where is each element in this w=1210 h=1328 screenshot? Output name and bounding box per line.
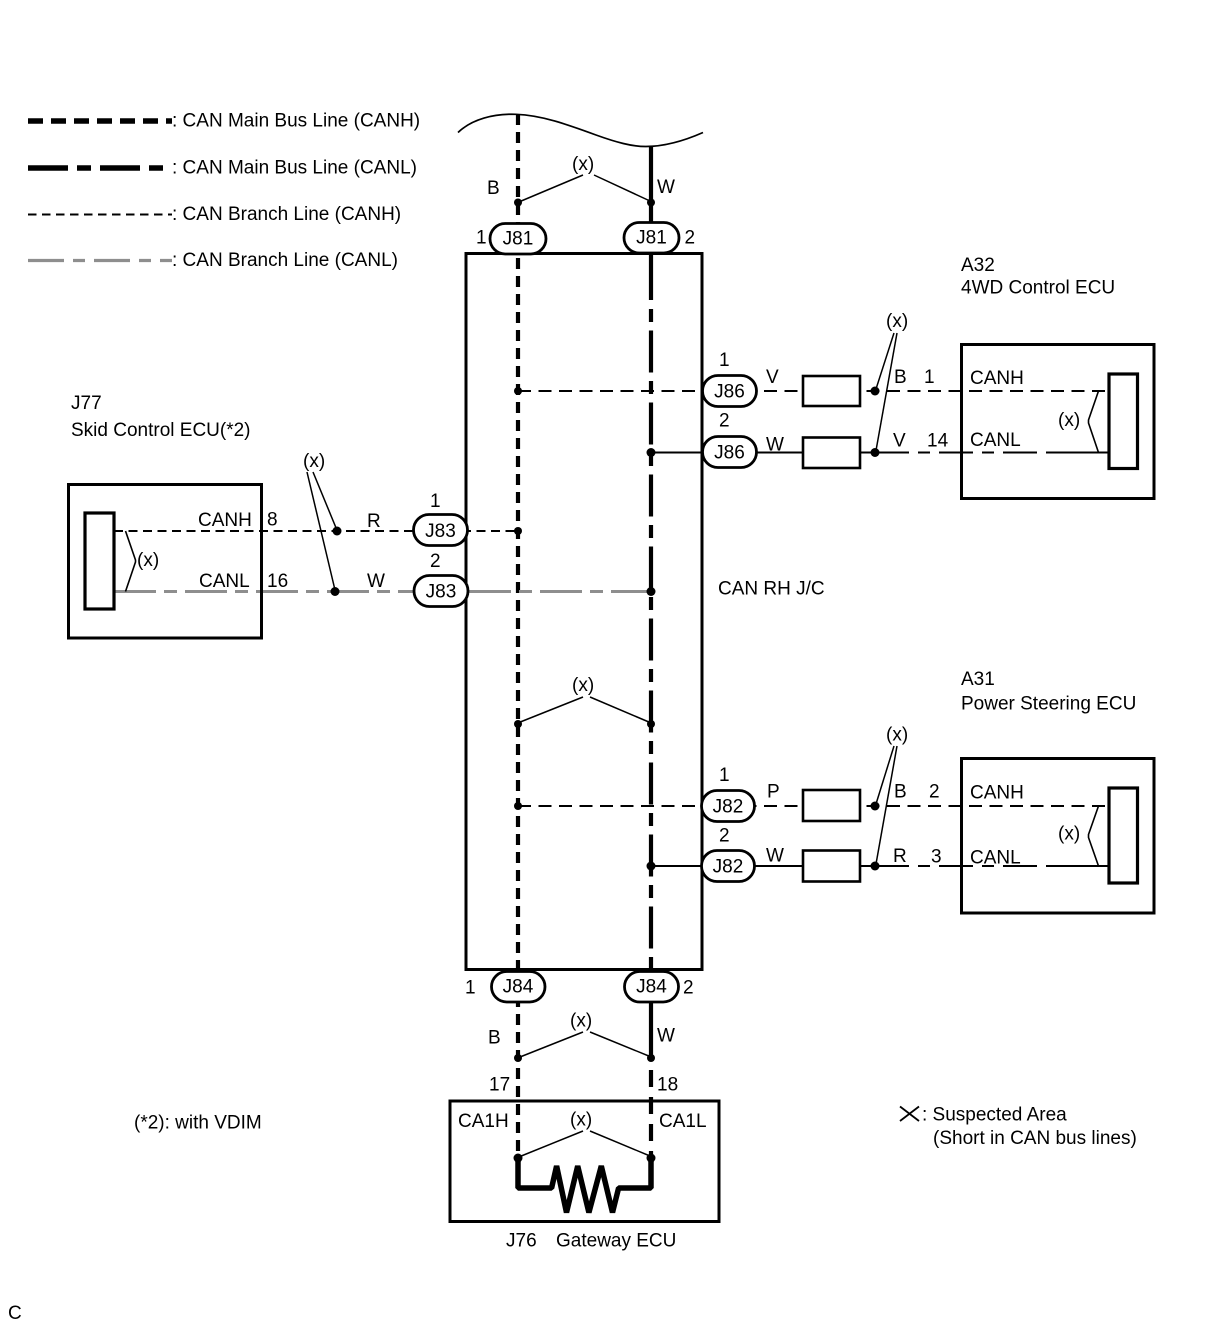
junction dot mid W — [647, 720, 655, 728]
wire: CANL branch line from bus W to 4WD Control ECU via J86 pin 2 (solid part) — [651, 452, 875, 454]
svg-text:17: 17 — [489, 1075, 510, 1096]
svg-text:CANH: CANH — [970, 783, 1024, 804]
connector pin strip inside J77 — [85, 513, 114, 609]
svg-text:V: V — [893, 431, 906, 452]
svg-text:P: P — [767, 782, 780, 803]
wire: CAN main bus CANH (B line, vertical dashed) — [516, 114, 520, 1158]
wire: CAN main bus CANL (W line, top solid segment) — [649, 146, 653, 300]
callout line J86 lower — [876, 333, 897, 451]
svg-text:R: R — [367, 511, 381, 532]
connector oval: J82 pin 1 — [702, 791, 755, 822]
svg-text:CA1L: CA1L — [659, 1111, 707, 1132]
callout line mid right — [590, 697, 650, 723]
callout line gateway right — [590, 1131, 650, 1156]
junction dot mid B — [514, 720, 522, 728]
svg-text:2: 2 — [929, 782, 940, 803]
svg-text:1: 1 — [430, 491, 441, 512]
svg-text:W: W — [657, 1026, 675, 1047]
connector oval: J86 pin 1 — [703, 376, 757, 407]
junction block: CAN RH J/C box — [466, 254, 702, 970]
note: suspected area X symbol — [900, 1107, 919, 1122]
svg-text:Skid Control ECU(*2): Skid Control ECU(*2) — [71, 420, 251, 441]
svg-text:1: 1 — [476, 228, 487, 249]
svg-text:(x): (x) — [1058, 824, 1080, 845]
svg-text:B: B — [488, 1028, 501, 1049]
junction dot where J83 CANH branch meets bus B — [514, 527, 522, 535]
junction dot where J86 CANL branch meets bus W — [647, 448, 656, 457]
svg-text:1: 1 — [924, 367, 935, 388]
svg-text:J77: J77 — [71, 393, 102, 414]
svg-text:J83: J83 — [426, 582, 457, 603]
svg-text:A32: A32 — [961, 255, 995, 276]
junction dot where J86 CANH branch meets bus B — [514, 387, 522, 395]
svg-text:B: B — [894, 367, 907, 388]
svg-text:1: 1 — [465, 978, 476, 999]
junction dot where J82 CANH branch meets bus B — [514, 802, 522, 810]
connector oval: J83 pin 1 — [414, 515, 468, 546]
legend line: CAN Main Bus Line (CANH) sample — [28, 118, 172, 124]
svg-text:(x): (x) — [572, 154, 594, 175]
connector oval: J82 pin 2 — [702, 851, 755, 882]
svg-text:J81: J81 — [503, 229, 534, 250]
legend line: CAN Branch Line (CANL) sample — [28, 259, 172, 262]
junction dot J83 CANL — [331, 587, 340, 596]
wire: CANL branch line J82 pin 2 (dash-dot part into A31) — [875, 865, 1056, 867]
svg-text:: CAN Main Bus Line (CANH): : CAN Main Bus Line (CANH) — [172, 111, 420, 132]
svg-text:(x): (x) — [570, 1011, 592, 1032]
svg-text:4WD Control ECU: 4WD Control ECU — [961, 278, 1115, 299]
callout line top right — [594, 175, 650, 201]
junction dot J86 CANH — [871, 387, 880, 396]
resistor: terminating resistor inside gateway ECU — [518, 1156, 651, 1213]
svg-text:CANL: CANL — [970, 430, 1021, 451]
wire: CANL branch line J86 pin 2 (dash-dot part into A32) — [875, 452, 1056, 454]
svg-text:J86: J86 — [714, 443, 745, 464]
junction dot gateway W — [647, 1154, 656, 1163]
svg-text:(x): (x) — [1058, 410, 1080, 431]
svg-text:18: 18 — [657, 1075, 678, 1096]
svg-text:J84: J84 — [636, 977, 667, 998]
bracket marker inside A32 — [1089, 391, 1099, 453]
legend line: CAN Main Bus Line (CANL) sample — [28, 165, 172, 171]
callout line J83 upper — [313, 472, 337, 529]
svg-text:(x): (x) — [303, 451, 325, 472]
junction dot gateway B — [514, 1154, 523, 1163]
svg-text:Gateway ECU: Gateway ECU — [556, 1231, 676, 1252]
svg-text:2: 2 — [719, 826, 730, 847]
svg-text:14: 14 — [927, 431, 949, 452]
callout line J84 left — [520, 1032, 583, 1057]
svg-text:16: 16 — [267, 571, 288, 592]
bracket marker inside A31 — [1089, 806, 1099, 866]
svg-text:: CAN Main Bus Line (CANL): : CAN Main Bus Line (CANL) — [172, 158, 417, 179]
svg-text:(x): (x) — [886, 311, 908, 332]
svg-text:W: W — [766, 435, 784, 456]
svg-text:: CAN Branch Line (CANH): : CAN Branch Line (CANH) — [172, 204, 401, 225]
connector oval: J81 pin 1 — [490, 224, 546, 255]
callout line J83 lower — [307, 472, 335, 590]
svg-text:(Short in CAN bus lines): (Short in CAN bus lines) — [933, 1128, 1137, 1149]
callout line J84 right — [590, 1032, 650, 1057]
svg-text:CANL: CANL — [199, 571, 250, 592]
svg-text:2: 2 — [430, 551, 441, 572]
ECU box: J76 Gateway ECU — [450, 1101, 719, 1222]
svg-text:J76: J76 — [506, 1231, 537, 1252]
svg-text:CANH: CANH — [198, 510, 252, 531]
svg-text:J81: J81 — [636, 228, 667, 249]
wire: CANH branch line from bus B to Power Steering ECU via J82 pin 1 — [518, 805, 1109, 807]
wire: CAN main bus CANL (W line, dashed segment into gateway) — [649, 1070, 653, 1158]
svg-text:1: 1 — [719, 765, 730, 786]
junction dot J83 CANH — [333, 527, 342, 536]
callout line J82 lower — [876, 746, 897, 864]
ECU box: J77 Skid Control ECU — [69, 485, 262, 639]
svg-text:(x): (x) — [137, 550, 159, 571]
svg-text:J83: J83 — [425, 521, 456, 542]
svg-text:(*2): with VDIM: (*2): with VDIM — [134, 1113, 262, 1134]
svg-text:B: B — [894, 782, 907, 803]
svg-text:(x): (x) — [570, 1110, 592, 1131]
component box: noise filter on J82 CANL branch — [803, 851, 860, 882]
junction dot below J84 B — [514, 1054, 522, 1062]
svg-text:B: B — [487, 178, 500, 199]
svg-text:A31: A31 — [961, 669, 995, 690]
svg-text:CANH: CANH — [970, 368, 1024, 389]
wire: CAN main bus CANL (W line, dash-dot middle segment) — [649, 309, 653, 988]
junction dot below J84 W — [647, 1054, 655, 1062]
callout line gateway left — [520, 1131, 583, 1157]
junction dot J86 CANL — [871, 448, 880, 457]
wire: harness wave break at top — [458, 114, 703, 146]
connector oval: J81 pin 2 — [624, 223, 679, 254]
ECU box: A32 4WD Control ECU — [962, 345, 1155, 499]
wire: CANL branch line from bus W to Power Steering ECU via J82 pin 2 (solid part) — [651, 865, 875, 867]
svg-text:: CAN Branch Line (CANL): : CAN Branch Line (CANL) — [172, 250, 398, 271]
component box: noise filter on J82 CANH branch — [803, 790, 860, 821]
svg-text:W: W — [657, 177, 675, 198]
callout line J86 upper — [876, 333, 894, 389]
junction dot where J82 CANL branch meets bus W — [647, 862, 656, 871]
svg-text:3: 3 — [931, 847, 942, 868]
svg-text:: Suspected Area: : Suspected Area — [922, 1105, 1067, 1126]
legend line: CAN Branch Line (CANH) sample — [28, 214, 172, 216]
connector oval: J84 pin 1 — [492, 972, 546, 1003]
junction dot J82 CANL — [871, 862, 880, 871]
svg-text:V: V — [766, 367, 779, 388]
svg-text:(x): (x) — [572, 675, 594, 696]
svg-text:1: 1 — [719, 350, 730, 371]
svg-text:J82: J82 — [713, 857, 744, 878]
svg-text:2: 2 — [683, 978, 694, 999]
svg-text:8: 8 — [267, 510, 278, 531]
wire: CANH branch line from bus B to 4WD Control ECU via J86 pin 1 — [518, 390, 1109, 392]
svg-text:2: 2 — [719, 411, 730, 432]
svg-text:J82: J82 — [713, 797, 744, 818]
junction dot top W — [647, 199, 655, 207]
junction dot where J83 CANL branch meets bus W — [647, 587, 656, 596]
connector oval: J83 pin 2 — [414, 576, 468, 607]
callout line mid left — [519, 697, 583, 723]
junction dot top B — [514, 199, 522, 207]
connector pin strip inside A31 — [1109, 788, 1138, 883]
component box: noise filter on J86 CANH branch — [803, 376, 860, 406]
svg-text:CAN RH J/C: CAN RH J/C — [718, 579, 825, 600]
connector oval: J86 pin 2 — [703, 437, 757, 468]
bracket marker inside J77 — [126, 531, 136, 592]
svg-text:W: W — [766, 846, 784, 867]
callout line J82 upper — [876, 746, 894, 804]
connector oval: J84 pin 2 — [625, 972, 679, 1003]
svg-text:CANL: CANL — [970, 848, 1021, 869]
wire: CANH branch line from Skid Control ECU to bus B via J83 pin 1 — [114, 530, 518, 532]
wire: CANL branch line from Skid Control ECU to bus W via J83 pin 2 (gray dash-dot) — [114, 590, 651, 593]
wire: CAN main bus CANL (W line, solid segment above gateway junction) — [649, 990, 653, 1058]
connector pin strip inside A32 — [1109, 374, 1138, 469]
svg-text:R: R — [893, 846, 907, 867]
component box: noise filter on J86 CANL branch — [803, 438, 860, 469]
svg-text:CA1H: CA1H — [458, 1111, 509, 1132]
svg-text:W: W — [367, 571, 385, 592]
svg-text:J86: J86 — [714, 382, 745, 403]
svg-text:Power Steering ECU: Power Steering ECU — [961, 694, 1136, 715]
callout line top left — [520, 175, 583, 202]
svg-text:J84: J84 — [503, 977, 534, 998]
junction dot J82 CANH — [871, 802, 880, 811]
ECU box: A31 Power Steering ECU — [962, 759, 1155, 914]
svg-text:2: 2 — [685, 228, 696, 249]
svg-text:(x): (x) — [886, 725, 908, 746]
svg-text:C: C — [8, 1303, 22, 1324]
